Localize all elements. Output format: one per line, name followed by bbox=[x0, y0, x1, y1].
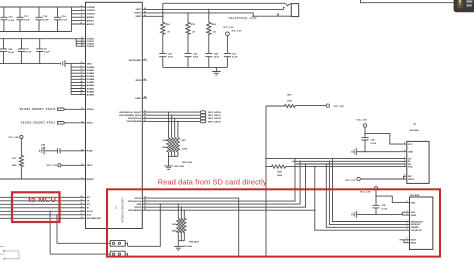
svg-text:12: 12 bbox=[81, 210, 83, 212]
ground sideways on GND rail bbox=[61, 60, 66, 67]
svg-text:VS1003_SOCKET_XTALI: VS1003_SOCKET_XTALI bbox=[21, 122, 56, 125]
wire GPIO1 to pad bbox=[142, 114, 200, 116]
wire DREQ pull-up vertical bbox=[265, 106, 267, 256]
headphone jack sleeve contact bbox=[278, 14, 279, 16]
svg-text:18: 18 bbox=[81, 121, 83, 123]
svg-text:Read data from SD card directl: Read data from SD card directly bbox=[158, 178, 267, 187]
svg-text:100k: 100k bbox=[182, 148, 188, 150]
svg-text:IOVDD2: IOVDD2 bbox=[87, 14, 96, 16]
svg-text:CVDD3: CVDD3 bbox=[87, 46, 95, 48]
node junction XCS drop bbox=[56, 214, 57, 215]
headphone jack J1 body bbox=[291, 4, 298, 17]
resistor R16 bbox=[161, 3, 171, 53]
svg-text:GND: GND bbox=[87, 63, 92, 65]
svg-text:0.1uF: 0.1uF bbox=[26, 52, 32, 54]
wire resistor cluster collector bbox=[169, 155, 178, 157]
svg-text:MP3_GPIO3: MP3_GPIO3 bbox=[208, 121, 221, 123]
svg-text:100k: 100k bbox=[162, 147, 168, 149]
svg-text:46: 46 bbox=[144, 7, 146, 10]
svg-text:RX: RX bbox=[87, 197, 91, 199]
wire collector to ground bbox=[168, 156, 170, 166]
svg-text:GPIO0(DCLK_IISOUT: GPIO0(DCLK_IISOUT bbox=[119, 112, 142, 114]
svg-text:AGND0: AGND0 bbox=[87, 84, 95, 87]
svg-text:VCC_3.3V: VCC_3.3V bbox=[345, 180, 356, 182]
wire DAT1 DAT2 tie bbox=[400, 240, 407, 243]
capacitor C10 bbox=[0, 7, 15, 32]
power VCC_3.3V at SD card bbox=[360, 187, 378, 194]
svg-text:38: 38 bbox=[81, 87, 83, 89]
node junction SCK row at vertical bbox=[265, 166, 266, 167]
wire GPIO3 drop bbox=[177, 121, 179, 137]
resistor R17 bbox=[12, 139, 24, 179]
svg-text:1: 1 bbox=[407, 220, 408, 222]
svg-text:10uF: 10uF bbox=[168, 57, 174, 59]
capacitor C42 bbox=[41, 144, 86, 154]
ground sideways for EEPROM GND bbox=[352, 148, 356, 155]
capacitor C37 bbox=[224, 53, 238, 67]
connector pad MP3_GPIO0 bbox=[200, 111, 221, 114]
svg-text:MICN: MICN bbox=[136, 80, 142, 82]
svg-text:1: 1 bbox=[127, 242, 128, 244]
wire EEPROM GND row bbox=[356, 151, 403, 153]
wire IC row4 to staircase bbox=[142, 164, 305, 207]
wire jumper J3 right stub bbox=[125, 254, 127, 258]
ground 3-cluster bbox=[174, 246, 182, 250]
node junctions EEPROM row drops bbox=[294, 158, 333, 211]
svg-text:R22 100k: R22 100k bbox=[183, 162, 193, 164]
wire MCU bus SCLK bbox=[0, 210, 86, 212]
sd card pin labels bbox=[411, 202, 424, 244]
wire MCU bus XDCS bbox=[0, 217, 86, 219]
eeprom pin labels bbox=[408, 144, 415, 181]
resistor R19 bbox=[170, 138, 173, 157]
wire jumper J2 right stub bbox=[125, 243, 127, 246]
node junction RIGHT branch bbox=[187, 12, 188, 13]
svg-text:25: 25 bbox=[81, 62, 83, 64]
svg-text:GPIO1(SDATA_MCLK: GPIO1(SDATA_MCLK bbox=[119, 114, 142, 117]
svg-text:6: 6 bbox=[81, 9, 82, 11]
eeprom pin stubs bbox=[403, 144, 406, 179]
node VS1003_SOCKET_XTALI port bbox=[21, 122, 65, 125]
svg-text:6: 6 bbox=[404, 165, 405, 167]
svg-text:0.1uF: 0.1uF bbox=[62, 19, 68, 21]
resistor R25 bbox=[180, 218, 183, 240]
svg-text:TEST: TEST bbox=[87, 165, 93, 167]
IC pin labels SD side bottom bbox=[128, 198, 142, 212]
svg-text:100k: 100k bbox=[277, 175, 283, 177]
resistor R18 bbox=[162, 138, 170, 157]
svg-text:10uF: 10uF bbox=[214, 57, 220, 59]
capacitor C23 bbox=[185, 53, 199, 67]
svg-text:5: 5 bbox=[404, 160, 405, 162]
wire bottom rail of IOVDD/AVDD decoupling bank bbox=[0, 31, 72, 33]
svg-text:SDDAT3(CS: SDDAT3(CS bbox=[411, 220, 424, 223]
svg-text:VSS: VSS bbox=[411, 212, 416, 214]
svg-text:LEFT: LEFT bbox=[136, 9, 142, 11]
svg-text:R25 100k: R25 100k bbox=[183, 246, 193, 248]
svg-text:47: 47 bbox=[81, 92, 83, 95]
svg-text:1: 1 bbox=[404, 157, 405, 159]
sd card connector body bbox=[410, 197, 433, 249]
wire IOVDD/AVDD pin stubs bbox=[72, 7, 86, 24]
svg-text:DAT0(DO: DAT0(DO bbox=[411, 223, 421, 226]
svg-text:32: 32 bbox=[81, 164, 83, 166]
svg-text:XTALO: XTALO bbox=[87, 108, 95, 111]
svg-text:SO: SO bbox=[87, 204, 90, 206]
svg-text:3: 3 bbox=[404, 174, 405, 176]
svg-text:17: 17 bbox=[81, 108, 83, 110]
op-amp U2 VS1003 socket IC body bbox=[86, 2, 143, 228]
svg-text:DGND4: DGND4 bbox=[87, 78, 95, 81]
capacitor C22 bbox=[159, 53, 173, 67]
pin numbers IOVDD/AVDD bbox=[80, 6, 82, 25]
wire GBUF rail to jack sleeve bbox=[163, 2, 286, 4]
tooltip dark overlay top right bbox=[454, 0, 474, 12]
svg-text:100k: 100k bbox=[12, 165, 18, 167]
svg-text:GPIO1(DCLK: GPIO1(DCLK bbox=[128, 201, 142, 203]
node junction C39 tap bbox=[375, 195, 376, 196]
node junction C38 tap bbox=[364, 133, 365, 134]
wire drop to 3-resistor cluster b bbox=[180, 207, 182, 218]
svg-text:21: 21 bbox=[81, 72, 83, 74]
svg-text:VS1003-SOCKET: VS1003-SOCKET bbox=[121, 197, 125, 223]
wire LEFT to jack bbox=[163, 8, 284, 10]
svg-text:R21 100k: R21 100k bbox=[175, 166, 185, 168]
red annotation box: to MCU bbox=[12, 192, 60, 222]
connector pad MP3_GPIO1 bbox=[200, 114, 221, 117]
svg-text:DGND5: DGND5 bbox=[87, 82, 95, 84]
wire stray net left cut a bbox=[0, 246, 4, 248]
wire EEPROM SI row bbox=[292, 160, 403, 162]
svg-text:VCC_3.3V: VCC_3.3V bbox=[231, 31, 242, 33]
svg-text:10uF: 10uF bbox=[193, 57, 199, 59]
svg-text:0.1uF: 0.1uF bbox=[24, 19, 30, 21]
wire DREQ row to long drop bbox=[142, 198, 238, 256]
svg-text:HEADPHONE_JACK: HEADPHONE_JACK bbox=[229, 17, 258, 20]
resistor R28 on SCK row bbox=[266, 165, 403, 177]
svg-text:SCLK: SCLK bbox=[87, 211, 93, 213]
svg-text:7: 7 bbox=[404, 177, 405, 179]
svg-text:DGND3: DGND3 bbox=[87, 76, 95, 78]
svg-text:IOVDD1: IOVDD1 bbox=[87, 10, 96, 12]
wire WP HOLD to VCC bbox=[360, 178, 403, 180]
svg-text:VCC_3.3V: VCC_3.3V bbox=[334, 106, 345, 108]
node junction CS row at vertical bbox=[265, 158, 266, 159]
wire MCU bus TX bbox=[0, 200, 86, 202]
capacitor C19 bbox=[36, 7, 50, 32]
wire jumper J3 left bbox=[50, 253, 110, 255]
ground GPIO pull-down cluster bbox=[164, 166, 172, 170]
svg-text:VSS2: VSS2 bbox=[411, 215, 417, 217]
pin numbers MCU bus bbox=[81, 196, 83, 219]
wire IC row2 to staircase bbox=[142, 159, 295, 202]
svg-text:VDD: VDD bbox=[411, 202, 416, 204]
wire top right net corner bbox=[361, 0, 474, 3]
svg-text:XCS: XCS bbox=[87, 215, 92, 217]
svg-text:34: 34 bbox=[81, 148, 83, 151]
wire VSS tie bar bbox=[402, 212, 406, 215]
svg-text:GPIO3(DATA: GPIO3(DATA bbox=[128, 209, 142, 212]
resistor R15 bbox=[186, 13, 196, 54]
wire vertical bus to DGND/AGND pins bbox=[70, 64, 72, 95]
wire stray net left cut c bbox=[0, 253, 4, 255]
svg-text:35: 35 bbox=[81, 84, 83, 86]
node junction C39 bottom bbox=[375, 214, 376, 215]
wire EEPROM CS row bbox=[266, 158, 403, 160]
resistor R23 bbox=[176, 138, 188, 157]
svg-text:CS: CS bbox=[408, 158, 412, 160]
wire vertical bus to IOVDD/AVDD pins bbox=[71, 7, 73, 32]
wire VCC to SD VDD bbox=[376, 190, 406, 203]
svg-text:VCC_3.3V: VCC_3.3V bbox=[223, 27, 234, 29]
svg-text:0.1uF: 0.1uF bbox=[8, 52, 14, 54]
capacitor C14 bbox=[54, 7, 68, 32]
wire GPIO0 drop bbox=[168, 112, 170, 138]
svg-text:VCC_3.3V: VCC_3.3V bbox=[360, 192, 371, 194]
svg-text:0.1uF: 0.1uF bbox=[232, 57, 238, 59]
svg-text:48: 48 bbox=[144, 96, 146, 99]
svg-text:8: 8 bbox=[404, 142, 405, 144]
resistor R27 bbox=[266, 95, 326, 108]
svg-text:AGND2: AGND2 bbox=[87, 90, 95, 93]
node junctions cluster drops bbox=[160, 203, 185, 210]
svg-text:2: 2 bbox=[144, 79, 145, 81]
jumper J2 block bbox=[110, 241, 125, 247]
node junction LEFT branch bbox=[208, 9, 209, 10]
power VCC_3.3V for WP HOLD bbox=[345, 177, 360, 182]
svg-text:to MCU: to MCU bbox=[28, 195, 56, 204]
power VCC_3.3V above C37 bbox=[223, 27, 234, 53]
wire MCU bus XCS bbox=[0, 214, 86, 216]
svg-text:4: 4 bbox=[404, 149, 405, 152]
svg-text:26: 26 bbox=[81, 196, 83, 198]
svg-text:SCK: SCK bbox=[408, 166, 413, 168]
svg-text:27: 27 bbox=[81, 199, 83, 201]
svg-text:45: 45 bbox=[144, 10, 146, 13]
capacitor C24 bbox=[205, 52, 219, 67]
headphone jack tip contact bbox=[286, 4, 291, 6]
svg-text:GPIO2(SCLK: GPIO2(SCLK bbox=[128, 118, 142, 120]
wire drop to 3-resistor cluster a bbox=[177, 204, 179, 218]
wire SD ground line bbox=[356, 213, 402, 215]
capacitor C38 bbox=[362, 137, 377, 151]
svg-text:9: 9 bbox=[407, 241, 408, 243]
IC pin labels GPIO mid bbox=[119, 112, 142, 123]
svg-text:0.1uF: 0.1uF bbox=[9, 20, 15, 22]
capacitor C9 bbox=[18, 39, 32, 64]
wire GPIO2 drop bbox=[174, 118, 176, 137]
svg-text:AGND1: AGND1 bbox=[87, 87, 95, 90]
svg-text:HOLD: HOLD bbox=[408, 179, 415, 181]
svg-text:DAT2: DAT2 bbox=[411, 242, 417, 245]
svg-text:AGND3: AGND3 bbox=[87, 93, 95, 96]
pin numbers CVDD bbox=[81, 37, 83, 47]
svg-text:GPIO0: GPIO0 bbox=[135, 198, 142, 200]
ground audio rail bbox=[212, 67, 220, 75]
wire SO drop to SD CLK bbox=[326, 164, 406, 227]
svg-text:DGND2: DGND2 bbox=[87, 73, 95, 75]
svg-text:1: 1 bbox=[127, 252, 128, 254]
svg-text:VCC: VCC bbox=[408, 144, 413, 146]
svg-text:RIGHT: RIGHT bbox=[134, 13, 141, 15]
wire GPIO1 drop bbox=[171, 115, 173, 137]
svg-text:4: 4 bbox=[407, 200, 408, 203]
wire stray net left cut b bbox=[3, 250, 19, 260]
svg-text:7: 7 bbox=[407, 228, 408, 230]
IC pin labels MCU side bbox=[87, 197, 102, 220]
svg-text:XDCS(BSYNC: XDCS(BSYNC bbox=[87, 218, 102, 220]
svg-text:7: 7 bbox=[81, 12, 82, 14]
pin numbers eeprom bbox=[404, 142, 405, 179]
svg-text:14: 14 bbox=[81, 216, 83, 219]
svg-text:4: 4 bbox=[81, 65, 82, 68]
svg-text:GPIO2: GPIO2 bbox=[135, 207, 142, 209]
wire audio ground rail bbox=[163, 66, 228, 68]
pin numbers SD side bbox=[144, 197, 146, 211]
svg-text:R26 100k: R26 100k bbox=[189, 241, 199, 243]
svg-text:1: 1 bbox=[144, 59, 145, 61]
IC right pin MICP stub bbox=[142, 59, 147, 61]
svg-text:6: 6 bbox=[407, 213, 408, 215]
red annotation box: SD card section bbox=[107, 189, 440, 256]
wire MCU bus SI bbox=[0, 207, 86, 209]
wire XTALO bbox=[65, 108, 86, 110]
power VCC_3.3V for EEPROM bbox=[357, 120, 368, 138]
svg-text:44: 44 bbox=[81, 80, 83, 83]
capacitor C16 bbox=[0, 39, 15, 64]
node junction GPIO drops bbox=[168, 111, 179, 122]
svg-text:1uF: 1uF bbox=[42, 148, 47, 150]
wire drop to 3-resistor cluster c bbox=[183, 210, 185, 218]
wire WP HOLD tie bar bbox=[402, 176, 404, 179]
wire IC row3 to staircase bbox=[142, 161, 300, 204]
svg-text:8: 8 bbox=[407, 238, 408, 240]
svg-text:AVDD2: AVDD2 bbox=[87, 23, 95, 26]
power VCC_3.3V for R17 pull-up bbox=[8, 135, 23, 139]
capacitor C8 bbox=[36, 39, 50, 64]
wire EEPROM SO row bbox=[296, 163, 404, 165]
IC U2 GND pin labels bbox=[87, 63, 95, 96]
eeprom U5 body bbox=[407, 141, 429, 183]
svg-text:30: 30 bbox=[81, 75, 83, 77]
pin numbers GND/DGND/AGND bbox=[81, 62, 83, 95]
wire CVDD pin stubs bbox=[76, 39, 85, 47]
IC U2 left pin labels column 1 bbox=[87, 7, 96, 26]
svg-text:VREF: VREF bbox=[135, 16, 141, 18]
svg-text:DAT1: DAT1 bbox=[411, 239, 417, 242]
ground sideways at SD card bbox=[352, 211, 356, 218]
resistor R26 bbox=[183, 218, 186, 240]
wire GPIO3 to pad bbox=[142, 120, 200, 122]
node junction SCLK drop bbox=[49, 211, 50, 212]
svg-text:28: 28 bbox=[81, 203, 83, 205]
svg-text:GPIO3(SDATA: GPIO3(SDATA bbox=[127, 120, 142, 123]
IC right pin MICN stub bbox=[142, 79, 147, 81]
svg-text:VCC_3.3V: VCC_3.3V bbox=[357, 120, 368, 122]
wire RIGHT to jack with jog bbox=[188, 13, 291, 16]
wire CS drop to SD DAT3 bbox=[333, 159, 407, 222]
jumper J3 block bbox=[110, 251, 125, 257]
connector pad MP3_GPIO2 bbox=[200, 117, 221, 120]
wire GPIO0 to pad bbox=[142, 111, 200, 113]
svg-text:5: 5 bbox=[407, 226, 408, 228]
svg-text:MICP(LINE1: MICP(LINE1 bbox=[129, 60, 142, 62]
wire DGND/AGND pin stubs bbox=[71, 67, 85, 95]
wire MCU bus RX bbox=[0, 196, 86, 198]
svg-text:5: 5 bbox=[81, 6, 82, 8]
wire XRESET bbox=[0, 178, 86, 180]
wire SI drop to SD CMD bbox=[329, 161, 406, 224]
wire IC row5 to SCK vertical bbox=[142, 209, 314, 211]
IC right pin LEFT stub bbox=[142, 8, 163, 10]
svg-text:GND: GND bbox=[408, 152, 413, 154]
svg-text:IOVDD0: IOVDD0 bbox=[87, 7, 96, 9]
wire jumper J2 left bbox=[57, 242, 110, 244]
svg-text:44: 44 bbox=[144, 14, 146, 17]
svg-text:AVDD1: AVDD1 bbox=[87, 19, 95, 22]
wire EEPROM VCC net bbox=[365, 133, 403, 144]
svg-text:13: 13 bbox=[81, 213, 83, 215]
wire GPIO2 to pad bbox=[142, 117, 200, 119]
svg-text:XTALI: XTALI bbox=[87, 122, 94, 125]
svg-text:VCC_3.3V: VCC_3.3V bbox=[47, 165, 58, 167]
svg-text:0.1uF: 0.1uF bbox=[371, 143, 377, 145]
node junction C38 bottom bbox=[364, 151, 365, 152]
svg-text:VS1003_SOCKET_XTALO: VS1003_SOCKET_XTALO bbox=[20, 108, 56, 111]
svg-text:8: 8 bbox=[81, 16, 82, 18]
wire top rail of IOVDD/AVDD decoupling bank bbox=[0, 6, 72, 8]
svg-text:100k: 100k bbox=[287, 101, 293, 103]
svg-text:40: 40 bbox=[81, 44, 83, 47]
svg-text:29: 29 bbox=[81, 206, 83, 208]
wire vertical bus to CVDD pins bbox=[75, 39, 77, 47]
svg-text:DGND1: DGND1 bbox=[87, 70, 95, 72]
svg-text:0.1uF: 0.1uF bbox=[382, 208, 388, 210]
svg-text:25LC640: 25LC640 bbox=[410, 129, 420, 132]
svg-text:CMD(DI: CMD(DI bbox=[411, 227, 419, 229]
svg-text:CMD: CMD bbox=[136, 204, 141, 206]
wire 3-cluster to ground bbox=[177, 241, 179, 247]
wire GND rail with bottom of CVDD bank bbox=[0, 63, 86, 65]
power VCC_3.3V to TEST pin bbox=[47, 164, 86, 168]
wire XDCS branch down to jumper tick bbox=[128, 204, 161, 246]
wire 3-cluster collector bbox=[178, 240, 184, 242]
svg-text:10: 10 bbox=[80, 23, 82, 25]
IC right pin LINE1 stub bbox=[142, 97, 147, 99]
svg-text:DGND0: DGND0 bbox=[87, 67, 95, 69]
IC right pin VREF stub bbox=[142, 15, 163, 17]
capacitor C17 bbox=[17, 7, 31, 32]
ground sideways for C42 bbox=[40, 147, 44, 154]
sd card pin stubs bbox=[406, 203, 410, 243]
connector pad MP3_GPIO3 bbox=[200, 120, 221, 123]
resistor R14 bbox=[207, 9, 217, 53]
svg-text:0.1uF: 0.1uF bbox=[43, 19, 49, 21]
node junction RIGHT jog bbox=[252, 15, 254, 17]
wire top rail of CVDD decoupling bank bbox=[0, 38, 76, 40]
wire SCK drop to SD CLK bbox=[315, 167, 406, 231]
headphone jack ring contact bbox=[284, 7, 285, 9]
svg-text:3: 3 bbox=[407, 210, 408, 212]
svg-text:46: 46 bbox=[81, 89, 83, 92]
svg-text:AVDD0: AVDD0 bbox=[87, 16, 95, 19]
svg-text:9: 9 bbox=[81, 19, 82, 21]
resistor R29 bbox=[172, 218, 180, 240]
IC U2 CVDD pin labels bbox=[87, 39, 95, 49]
svg-text:CLK(SCLK: CLK(SCLK bbox=[411, 230, 423, 232]
svg-text:0.1uF: 0.1uF bbox=[44, 52, 50, 54]
svg-text:100k: 100k bbox=[172, 230, 178, 232]
